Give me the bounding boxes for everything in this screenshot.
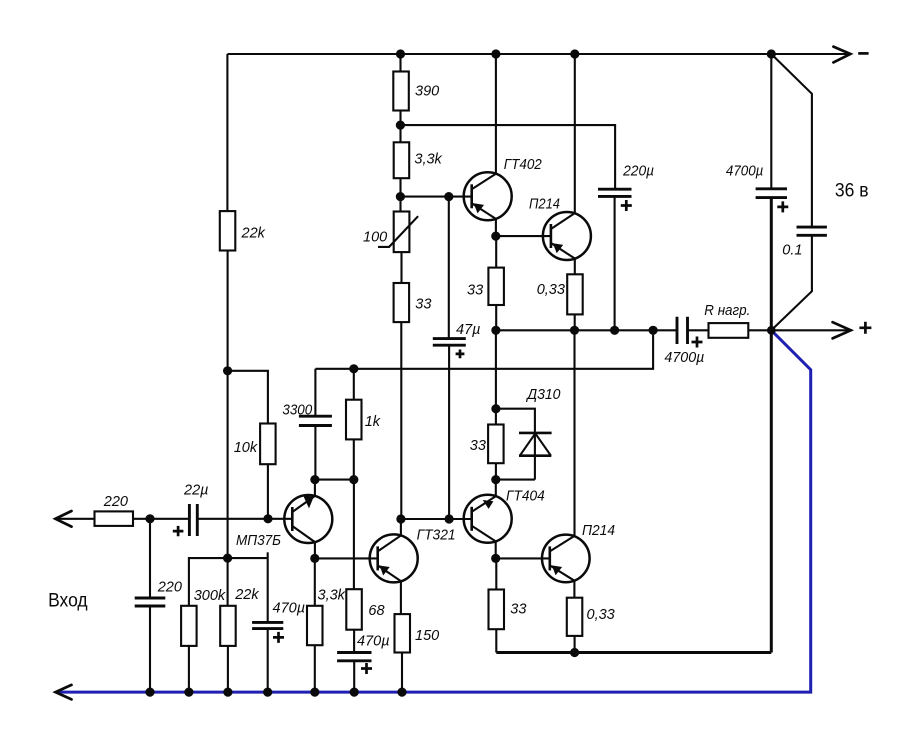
svg-text:ГТ404: ГТ404 [506,488,545,504]
wire: MP37B collector node to 1k bottom node [315,479,354,481]
resistor 390 [393,72,409,111]
capacitor 22u plates [189,504,197,536]
wire: bootstrap run from 3300 cap to output line [315,330,653,369]
svg-text:4700µ: 4700µ [726,164,764,180]
svg-text:1k: 1k [365,414,381,430]
svg-text:3,3k: 3,3k [414,152,442,168]
node: MP37B collector node [310,475,319,484]
svg-text:36 в: 36 в [835,180,869,201]
node: top rail junction at GT402 collector [491,49,500,58]
svg-text:Вход: Вход [48,591,88,612]
wire: GT321 collector node to GT404 base [401,518,472,520]
wire: P214 top collector to top rail [574,54,576,213]
transistor GT402 emitter arrow [474,203,484,213]
svg-text:ГТ321: ГТ321 [417,528,456,544]
capacitor 470u divider plates [252,622,283,628]
transistor GT402 circle [464,172,512,220]
node: bottom return at 0.33 [570,648,579,657]
wire: 10k resistor down to input line junction [267,464,269,519]
plus sign 470u divider [273,632,284,643]
capacitor 47u plates [433,339,466,346]
arrow: negative rail output arrowhead [833,47,850,63]
wire: blue feedback return from output node to ground rail [57,330,811,692]
svg-text:220µ: 220µ [622,163,654,179]
wire: 3.3k emitter resistor to ground rail [314,645,316,692]
transistor MP37B collector diagonal and lead [292,480,315,512]
transistor P214 lower emitter diagonal [550,565,575,580]
capacitor 220 input shunt plates [135,598,166,606]
node: bootstrap at 1k top [349,364,358,373]
wire: diode node down through 33 resistor top lead [495,409,497,425]
wire: top negative supply rail [227,53,849,55]
transistor P214 lower collector diagonal [550,536,575,552]
svg-text:4700µ: 4700µ [664,350,704,366]
node: top rail junction at P214 collector [570,49,579,58]
plus sign 470u emitter [361,663,372,674]
wire: input line from arrow to 220 resistor [55,518,94,520]
wire: input line 22u cap to MP37B base [197,518,292,520]
resistor 3,3k emitter [307,606,323,645]
capacitor 0.1 plates [797,227,827,235]
node: ground rail at 470u [263,688,272,697]
wire: 33 resistor to GT404 emitter node [495,463,497,479]
capacitor 470u emitter plates [337,653,371,661]
resistor 0,33 lower [567,598,583,636]
wire: driver node to P214 top base [496,235,551,237]
wire: 220u cap bottom lead to output line [614,196,616,330]
wire: 1k top lead to bootstrap [353,369,355,400]
resistor 300k [181,606,197,646]
wire: lower node to 33 resistor [495,558,497,589]
wire: 3300 cap top lead [314,369,316,416]
node: GT402 base / 47u junction [444,192,453,201]
transistor GT321 circle [370,534,418,582]
svg-text:R нагр.: R нагр. [704,303,750,319]
resistor 22k divider [220,606,236,646]
resistor 220 input series [95,511,134,526]
capacitor 3300 plates [299,416,332,425]
transistor P214 upper emitter arrow [553,243,563,253]
node: output line at 0.33 resistor [570,326,579,335]
wire: lower node to P214 bottom base [496,557,550,559]
svg-text:МП37Б: МП37Б [236,533,281,549]
wire: 33 resistor to bottom return wire [495,629,497,652]
wire: 47u column from GT402 base junction down to cap [448,197,450,339]
svg-text:68: 68 [368,603,384,619]
node: output line at 33 resistor [491,326,500,335]
wire: 0.1 cap branch lower diagonal to output node [771,235,812,330]
wire: 390 to 3.3k with junction row [399,111,401,143]
svg-text:47µ: 47µ [456,322,480,338]
node: ground rail at 300k [184,688,193,697]
transistor GT404 base bar [470,507,473,531]
wire: 220 input shunt cap to ground rail [149,606,151,692]
arrow: ground rail arrowhead left [56,685,72,700]
svg-text:П214: П214 [529,197,560,213]
resistor 68 [346,589,362,630]
svg-text:33: 33 [415,296,431,312]
svg-text:33: 33 [470,438,486,454]
wire: left column from top rail down to 22k [226,54,228,211]
resistor 10k [260,424,276,465]
transistor P214 lower circle [542,535,590,583]
node: ground rail at 150 [397,688,406,697]
wire: P214 bottom emitter to 0.33 resistor [573,581,575,598]
node: MP37B emitter node [310,554,319,563]
resistor 3,3k upper [394,142,410,178]
capacitor 4700u psu plates [756,189,787,198]
svg-text:3,3k: 3,3k [318,588,346,604]
wire: 0.33 resistor to bottom return wire [574,636,576,653]
wire: load resistor to output node [748,329,771,331]
wire: stub above divider corner toward input junction [267,552,269,558]
transistor GT321 collector diagonal and lead [378,519,401,551]
wire: junction row to GT402 base [400,196,471,198]
svg-text:0,33: 0,33 [537,282,565,298]
wire: GT404 collector to lower node [495,541,497,558]
node: top rail junction at 390 [396,49,405,58]
svg-text:Д310: Д310 [525,387,560,403]
transistor P214 lower base bar [548,546,551,570]
node: GT404 base / 47u junction [445,514,454,523]
wire: D310 bottom corner to GT404 emitter node [496,479,535,481]
resistor 33 diode branch [488,425,504,464]
svg-text:0,33: 0,33 [587,607,615,623]
wire: GT402 emitter to driver node [495,219,497,236]
wire: 470u cap to ground rail [267,629,269,693]
node: top rail junction at power column [767,49,776,58]
wire: 68 resistor to 470u cap [353,630,355,653]
transistor GT402 base bar [470,184,473,208]
node: GT404 emitter node [491,475,500,484]
wire: GT402 collector to top rail [495,54,497,174]
node: MP37B base junction [263,514,272,523]
wire: divider corner run left to 300k branch [189,558,268,606]
node: 3.3k/100 junction [396,192,405,201]
wire: 150 resistor to ground rail [401,653,403,693]
svg-text:22k: 22k [234,587,259,603]
node: GT404 collector node [491,554,500,563]
svg-text:470µ: 470µ [273,600,306,616]
wire: horizontal run from 390/3.3k junction to 220u cap top [400,125,615,189]
transistor P214 upper circle [543,212,591,260]
resistor 150 [395,614,411,652]
wire: 300k resistor to ground rail [188,646,190,692]
wire: 4700u coupling cap to load resistor [688,329,709,331]
arrow: output plus arrowhead [833,322,851,338]
plus sign 22u [173,526,184,536]
transistor GT404 collector diagonal [472,526,496,542]
transistor GT321 emitter arrow [380,566,390,576]
wire: 0.33 resistor to output line [574,314,576,330]
svg-text:22µ: 22µ [183,482,208,498]
node: ground rail at 220 cap [145,688,154,697]
svg-text:100: 100 [363,229,387,245]
wire: bottom return run to power column [496,651,771,654]
svg-text:0.1: 0.1 [782,242,802,258]
transistor GT321 emitter diagonal [378,565,401,581]
wire: 0.1 cap branch upper diagonal from rail node [771,54,812,227]
capacitor 220u plates [598,189,632,196]
wire: GT321 emitter to 150 resistor [400,581,402,614]
transistor GT404 emitter diagonal [472,496,496,512]
wire: 3.3k emitter resistor from MP37B emitter node [314,558,316,605]
node: diode branch tap [491,404,500,413]
transistor MP37B circle [284,495,332,543]
node: driver node GT402 emitter / P214 base [491,232,500,241]
wire: GT404 emitter node to GT404 [495,480,497,497]
svg-text:3300: 3300 [282,402,312,418]
resistor R nagr load [709,323,749,338]
svg-text:33: 33 [467,282,483,298]
wire: P214 top emitter to 0.33 resistor [574,259,576,275]
resistor 1k [346,400,362,440]
plus sign output arrow [859,322,871,334]
node: input junction at 220 cap [145,514,154,523]
wire: 3300 cap bottom lead to MP37B collector node [314,426,316,480]
node: 390/3.3k junction [396,121,405,130]
label: minus sign of negative rail [858,52,868,55]
node: ground rail at 470u emitter [350,688,359,697]
wire: main bias chain 390 top lead [399,54,401,72]
svg-text:470µ: 470µ [357,634,390,650]
svg-text:П214: П214 [582,523,615,539]
capacitor 4700u output plates [677,317,688,344]
svg-text:150: 150 [415,628,439,644]
wire: 33 resistor long drop to GT321 collector node [400,322,402,519]
node: GT321 collector junction [396,514,405,523]
svg-text:33: 33 [510,602,526,618]
node: output node at power column [767,326,776,335]
svg-text:10k: 10k [234,440,258,456]
transistor GT402 emitter diagonal [472,203,496,219]
plus sign 4700u output [692,337,703,348]
node: left column feedback tap [223,366,232,375]
svg-text:390: 390 [415,83,439,99]
resistor 22k upper left [220,211,236,250]
wire: diode node to D310 top and through to bottom [496,409,535,480]
svg-text:220: 220 [103,494,128,510]
wire: MP37B emitter node to GT321 base [315,557,378,559]
wire: variable 100 resistor to 33 resistor [400,252,402,283]
node: divider wire junction [223,554,232,563]
resistor 0,33 upper [567,274,583,314]
wire: 470u branch down from divider wire [267,558,269,622]
wire: 3.3k to variable 100 resistor [399,178,401,211]
wire: node down to 68 resistor [353,480,355,590]
plus sign 47u [456,350,465,359]
wire: feedback tap from left column to 10k resistor [227,371,268,424]
transistor P214 upper emitter diagonal [551,243,575,259]
transistor MP37B emitter arrow [303,495,314,508]
diode D310 cathode bar [519,432,552,435]
transistor GT404 circle [464,495,512,543]
svg-text:22k: 22k [241,226,266,242]
wire: driver node to 33 emitter resistor [495,236,497,268]
node: output line at 220u cap [610,326,619,335]
wire: P214 bottom collector long rise to output line [573,330,575,536]
plus sign 220u [621,200,632,211]
transistor GT402 collector diagonal [472,174,496,190]
wire: left column from 22k down to lower 22k resistor [227,251,229,606]
wire: x496 column output line down to diode node [495,330,497,408]
resistor 33 GT402 emitter [488,268,504,305]
transistor MP37B emitter diagonal and lead [292,526,315,558]
resistor 33 below variable [394,283,410,322]
wire: lower 22k resistor to ground rail [227,646,229,692]
node: ground rail at 3.3k [310,688,319,697]
node: output line at bootstrap riser [649,326,658,335]
wire: output line from 33 node to 4700u coupling cap [496,329,677,331]
wire: output node to plus arrow [771,329,850,331]
transistor P214 lower emitter arrow [552,565,562,575]
node: ground rail at 22k [223,688,232,697]
wire: 470u cap to ground rail [353,661,355,692]
arrow: input line arrowhead left [55,511,71,527]
transistor MP37B base bar [291,507,294,531]
node: 1k bottom node [349,475,358,484]
transistor P214 upper base bar [550,224,553,248]
wire: input line 220 resistor to 22u cap [133,518,189,520]
transistor GT404 emitter arrow [483,500,494,509]
resistor 33 lower [489,590,505,630]
diode D310 anode base bar [519,454,551,457]
wire: 220 input shunt cap upper lead [149,519,151,598]
diode D310 triangle sides [520,433,551,455]
plus sign 4700u psu [777,201,788,212]
wire: 1k bottom lead to node [353,439,355,479]
wire: power column thick vertical from 4700u cap down to return [770,198,773,653]
svg-text:300k: 300k [194,588,226,604]
wire: 47u cap down across bootstrap to GT404 base wire [448,345,450,519]
wire: 4700u psu cap top lead from rail [770,54,772,189]
transistor GT321 base bar [376,546,379,570]
svg-text:220: 220 [157,579,182,595]
svg-text:ГТ402: ГТ402 [504,157,542,173]
resistor 100 variable arrow [378,216,418,247]
transistor P214 upper collector diagonal [551,213,575,229]
wire: 33 emitter resistor to output line [495,305,497,330]
resistor 100 variable body [394,212,410,253]
